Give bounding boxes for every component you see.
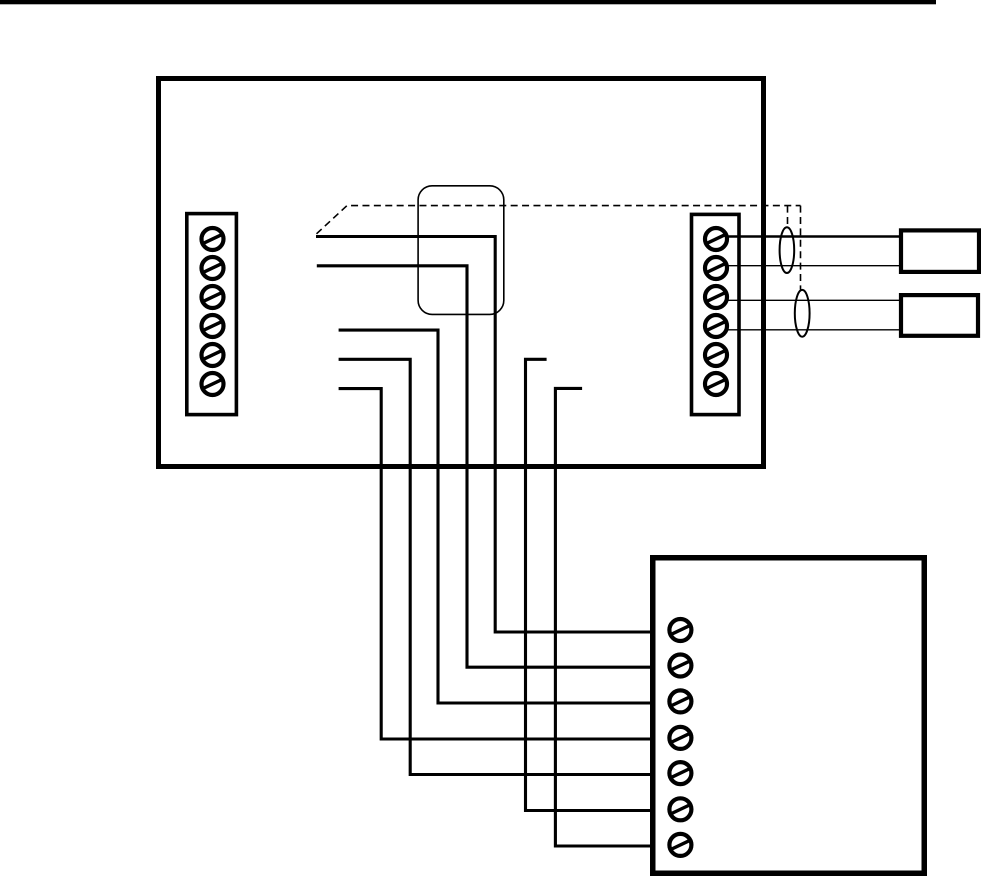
dashed cable outline [317,206,801,234]
TB2 screw terminal 4 [705,315,727,337]
wire B to bottom terminal 2 [317,266,653,667]
controller enclosure box [159,79,764,467]
power supply box [653,558,925,874]
TB2 screw terminal 2 [705,257,727,279]
cable loop ellipse 1 [780,227,795,273]
wire TB2-3 to J2 [728,299,901,301]
TB1 screw terminal 2 [202,257,224,279]
wire E to bottom terminal 4 [339,389,653,739]
TB2 screw terminal 6 [705,373,727,395]
TB1 screw terminal 4 [202,315,224,337]
PSU screw terminal 2 [669,655,691,677]
reader connector J2 [901,295,978,336]
dashed drop to cable loop 2 [800,206,802,290]
wire C to bottom terminal 3 [339,330,653,703]
right terminal strip TB2 [692,214,740,414]
reader connector J1 [901,230,979,272]
TB2 screw terminal 1 [705,228,727,250]
PSU screw terminal 3 [669,690,691,712]
TB1 screw terminal 1 [202,228,224,250]
PSU screw terminal 4 [669,727,691,749]
TB2 screw terminal 5 [705,344,727,366]
rounded module outline [418,186,504,315]
TB1 screw terminal 5 [202,344,224,366]
dashed drop to cable loop 1 [787,206,789,227]
TB1 screw terminal 6 [202,373,224,395]
wire F to bottom terminal 6 [526,359,654,810]
wire D to bottom terminal 5 [339,359,653,774]
TB2 screw terminal 3 [705,286,727,308]
wire G to bottom terminal 7 [555,388,653,846]
PSU screw terminal 5 [669,762,691,784]
cable loop ellipse 2 [795,290,810,337]
PSU screw terminal 1 [669,619,691,641]
TB1 screw terminal 3 [202,286,224,308]
PSU screw terminal 7 [669,834,691,856]
top rule bar [0,0,936,4]
wire A to bottom terminal 1 [316,237,653,633]
wire TB2-1 to J1 [728,235,901,237]
wire TB2-2 to J1 [728,265,901,267]
left terminal strip TB1 [187,214,237,415]
PSU screw terminal 6 [669,798,691,820]
wire TB2-4 to J2 [728,329,901,331]
